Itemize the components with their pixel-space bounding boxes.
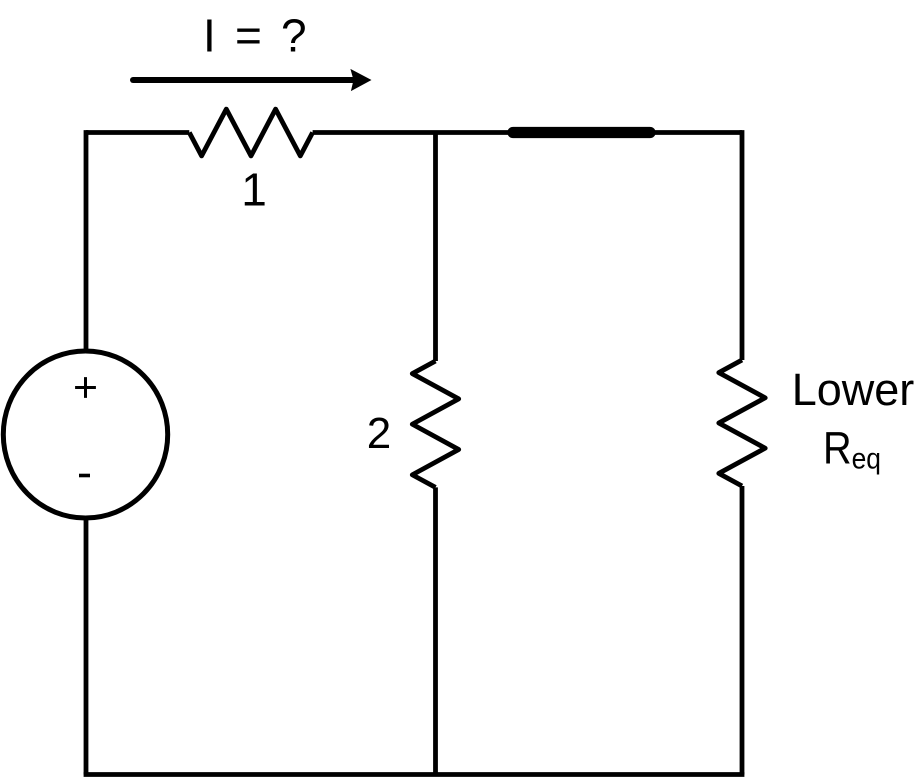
wire: right vertical lower segment xyxy=(740,486,745,775)
label I = ? xyxy=(203,9,310,61)
svg-text:Req: Req xyxy=(823,423,881,476)
wire: top-left horizontal segment xyxy=(86,130,189,135)
svg-text:Lower: Lower xyxy=(792,364,915,415)
wire: middle vertical lower segment xyxy=(433,487,438,774)
label 1 xyxy=(241,164,267,216)
resistor R1 (top, value 1) xyxy=(189,109,312,156)
wire: top horizontal segment from R1 to right corner xyxy=(313,130,742,135)
wire: middle vertical upper segment xyxy=(433,133,438,362)
wire: left vertical from source down to bottom corner xyxy=(84,517,89,775)
wire: right vertical upper segment xyxy=(740,130,745,360)
thick shorting bar on top-right wire xyxy=(513,127,650,138)
resistor R2 (middle, value 2) xyxy=(412,361,458,487)
voltage source V1 (circle) xyxy=(3,351,167,518)
svg-text:1: 1 xyxy=(241,164,267,216)
label Lower Req xyxy=(792,364,915,476)
wire: left vertical from top corner down to source xyxy=(84,130,89,351)
label 2 xyxy=(367,409,391,458)
resistor Req (right, lower equivalent) xyxy=(719,360,765,486)
wire: bottom horizontal xyxy=(84,772,745,777)
current direction arrow xyxy=(133,69,372,91)
svg-text:2: 2 xyxy=(367,409,391,458)
svg-text:I = ?: I = ? xyxy=(203,9,310,61)
minus sign of source xyxy=(79,474,90,478)
plus sign of source xyxy=(75,377,96,398)
